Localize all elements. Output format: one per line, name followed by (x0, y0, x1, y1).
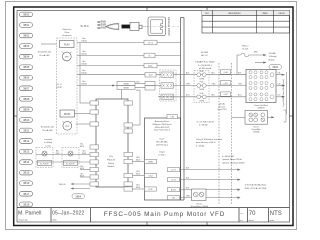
svg-text:3812: 3812 (23, 139, 30, 143)
module output arrows (72, 184, 90, 189)
svg-text:T4VFB: T4VFB (199, 89, 204, 91)
dimension bracket right (284, 110, 287, 122)
E-STOP station at x=36 (36, 148, 53, 168)
svg-text:3/4042: 3/4042 (81, 40, 87, 42)
safety module left terminals (90, 101, 99, 186)
svg-text:in Galley: in Galley (44, 142, 53, 144)
svg-text:FFSC–005 Main Pump Motor VFD: FFSC–005 Main Pump Motor VFD (104, 211, 225, 218)
svg-text:3/4C4: 3/4C4 (80, 176, 85, 178)
wire BLK/BLU pair (135, 84, 145, 88)
svg-text:3811: 3811 (23, 128, 29, 132)
label bus row power1 (81, 70, 87, 74)
svg-text:φ8 LAu: φ8 LAu (219, 103, 225, 106)
note FLA calc 2 (196, 138, 222, 147)
terminal pair 3800A/3800B (117, 82, 135, 90)
fuse FU2 (197, 84, 206, 88)
node 3816 (20, 181, 33, 186)
svg-text:E–STOP: E–STOP (40, 163, 49, 165)
svg-text:BYP: BYP (65, 126, 70, 128)
svg-text:3/4042: 3/4042 (81, 53, 87, 55)
E-STOP station at x=62 (62, 148, 79, 168)
svg-text:4 x 38 kW 440: 4 x 38 kW 440 (222, 156, 234, 158)
fuse holder label (195, 61, 215, 70)
wire to ground bus GB2 (232, 116, 246, 118)
svg-text:NTS: NTS (270, 211, 282, 217)
label bus 3203 (82, 151, 86, 155)
motor note (245, 184, 267, 190)
wire number box power 3 (221, 92, 231, 96)
wire motor BLK 168.1 (180, 169, 241, 171)
operator enclosure dashed (57, 38, 78, 134)
pilot light PL2 spec (41, 127, 55, 132)
node 3818 (20, 202, 33, 207)
svg-text:3/4042: 3/4042 (81, 83, 87, 85)
svg-text:3815: 3815 (23, 171, 30, 175)
wire module row 124 (76, 123, 91, 125)
svg-text:O,L,O: O,L,O (56, 84, 62, 86)
svg-text:3/4C4: 3/4C4 (80, 146, 85, 148)
svg-text:φ8 380 distrib: φ8 380 distrib (199, 67, 212, 70)
svg-text:05–Jan–2022: 05–Jan–2022 (52, 210, 85, 216)
plug body (130, 22, 142, 30)
safety module U2 (96, 99, 128, 187)
svg-text:45 C0: 45 C0 (148, 43, 153, 45)
svg-text:STOP: STOP (56, 87, 62, 89)
wire drop to safety module (121, 90, 123, 100)
label wire number (80, 173, 85, 177)
disconnect bracket (282, 72, 287, 114)
svg-text:+0/41: +0/41 (223, 83, 227, 85)
svg-text:3864: 3864 (75, 194, 81, 198)
svg-text:L1/T1: L1/T1 (171, 170, 176, 172)
drive right terminals (168, 168, 180, 200)
node 3604 oval (269, 65, 282, 70)
svg-text:Input:: Input: (160, 138, 165, 141)
label 45-403 (201, 52, 209, 57)
svg-text:Module: Module (269, 59, 275, 61)
label bus 3202 (56, 151, 60, 155)
label bus number (81, 38, 87, 42)
wire module rows lower (80, 170, 90, 178)
PDB label (254, 104, 268, 110)
motor arrow heads (237, 169, 240, 199)
svg-text:3/4C4: 3/4C4 (136, 174, 141, 176)
terminal strip TB1 (161, 72, 174, 77)
cable boot (106, 24, 119, 30)
svg-text:3801: 3801 (23, 23, 30, 27)
wire power row1 left (77, 74, 161, 76)
svg-text:Using 37 FLA and an assumed: Using 37 FLA and an assumed (196, 138, 222, 141)
svg-text:3–po 50 A (Fused Disconnect): 3–po 50 A (Fused Disconnect) (282, 79, 285, 107)
svg-text:3800: 3800 (23, 12, 30, 16)
svg-text:3802: 3802 (23, 34, 30, 38)
svg-text:+0/42: +0/42 (223, 94, 227, 96)
wire PLC comm arrows (98, 22, 106, 28)
svg-text:AUTO: AUTO (171, 189, 177, 192)
label wire number (80, 166, 85, 170)
wire control row 2 (77, 55, 181, 57)
node 3804 (20, 54, 33, 59)
svg-text:Optional: Belper 2350H: Optional: Belper 2350H (222, 158, 242, 161)
svg-text:date: date (262, 11, 268, 15)
svg-text:A04C: A04C (148, 65, 153, 68)
wire module to drive 2 (133, 175, 145, 177)
terminal label box row 3 (144, 63, 157, 68)
svg-text:3807: 3807 (23, 86, 30, 90)
svg-text:45 CM–: 45 CM– (101, 23, 107, 25)
wire power BLK (174, 74, 247, 76)
note FLA calc 1 (196, 121, 214, 127)
svg-text:name: name (278, 12, 285, 15)
svg-text:3810: 3810 (23, 118, 30, 122)
label bus junction (81, 81, 87, 85)
RJ45 jack J1 (148, 17, 166, 36)
svg-text:3203: 3203 (82, 153, 86, 155)
node 3802 (20, 33, 33, 38)
svg-text:Module: Module (108, 166, 116, 168)
svg-text:Level: Level (46, 145, 52, 147)
svg-text:3809: 3809 (23, 107, 30, 111)
svg-text:45 Λ403: 45 Λ403 (201, 52, 209, 54)
fuse FU34 (237, 53, 265, 75)
svg-text:Reserve: Reserve (219, 106, 226, 108)
wire module to drive 1 (133, 161, 145, 163)
wire duct (181, 18, 185, 201)
node 3806 (20, 75, 33, 80)
title block (17, 208, 290, 222)
svg-text:To Safety: To Safety (269, 55, 277, 58)
svg-text:SCX2200–24L: SCX2200–24L (38, 52, 52, 54)
pilot light PL2 (62, 121, 72, 130)
svg-text:380–480 VAC: 380–480 VAC (156, 141, 168, 144)
svg-text:3817: 3817 (23, 192, 30, 196)
svg-text:3202: 3202 (56, 153, 60, 155)
terminal label box power1 (145, 72, 156, 77)
svg-text:ORG: ORG (212, 83, 217, 85)
ground bus GB2 arrow (268, 116, 275, 118)
ground bus label (190, 202, 208, 208)
svg-text:VFD: VFD (65, 57, 70, 59)
node 3810 (20, 118, 33, 123)
wire module to drive 3 (133, 188, 145, 190)
drive spec text (152, 120, 172, 156)
svg-text:3800B: 3800B (123, 88, 129, 90)
terminal label box row 2 (144, 53, 155, 58)
pilot light PL1 (62, 52, 72, 61)
wire control row 3 (77, 65, 181, 67)
drive left terminals (145, 159, 157, 191)
svg-text:3813: 3813 (23, 150, 30, 154)
wire estop top (36, 154, 90, 156)
fuse FU34 label (242, 46, 249, 51)
svg-text:3808: 3808 (23, 97, 30, 101)
revision table (202, 11, 290, 34)
svg-text:To PLC: To PLC (80, 24, 89, 28)
svg-text:• 4 x 37 FLA ? 325 W: • 4 x 37 FLA ? 325 W (196, 121, 214, 124)
wire number box power 2 (221, 81, 231, 85)
ground bus GB1 (192, 189, 207, 201)
label 120VAC (269, 52, 277, 61)
wire motor GRN 196.1 (180, 197, 241, 199)
wire estop bottom (36, 161, 90, 163)
svg-text:3604: 3604 (272, 65, 278, 69)
node 3814 (20, 160, 33, 165)
svg-text:AutomationDirect: AutomationDirect (155, 120, 170, 123)
reserve note (217, 103, 227, 112)
svg-text:4 x 38 Aψ: 4 x 38 Aψ (196, 144, 205, 147)
svg-text:M. Parnell: M. Parnell (18, 210, 41, 216)
svg-text:3814: 3814 (23, 160, 30, 164)
svg-text:ORG: ORG (238, 83, 243, 85)
svg-text:50/56 Hz 3φ 4: 50/56 Hz 3φ 4 (156, 145, 168, 147)
wire motor BLK 188.1 (180, 189, 241, 191)
svg-text:To 37 FLA 230 VAC Motor: To 37 FLA 230 VAC Motor (245, 184, 267, 187)
terminal strip TB2 (161, 83, 174, 88)
ground bus block GB2 (245, 111, 268, 125)
note optional (222, 156, 245, 164)
svg-text:3803: 3803 (23, 44, 30, 48)
wire module row 103 (80, 102, 90, 104)
fuse FU3 (197, 95, 206, 99)
terminal label box row 1 (144, 40, 157, 45)
node 3805 (20, 65, 33, 70)
wire number box power 1 (221, 70, 231, 74)
svg-text:SCX2200–24L: SCX2200–24L (41, 127, 55, 129)
power distribution block PDB (246, 70, 276, 103)
node 3812 (20, 139, 33, 144)
wire control row 1 (77, 42, 181, 44)
node 3817 (20, 191, 33, 196)
svg-text:4 x 38 ΩA: 4 x 38 ΩA (199, 124, 208, 127)
svg-text:3804: 3804 (23, 55, 30, 59)
svg-text:L7/3L: L7/3L (148, 189, 153, 191)
svg-text:Safety: Safety (108, 162, 115, 165)
node 3811 (20, 128, 33, 133)
svg-text:3/4C4: 3/4C4 (136, 187, 141, 189)
node 3801 (20, 23, 33, 28)
wire module row 112 (75, 113, 91, 115)
svg-text:3816: 3816 (23, 181, 30, 185)
svg-text:70: 70 (249, 211, 256, 217)
svg-text:Power Dist Block: Power Dist Block (254, 104, 268, 107)
svg-text:AO–4C: AO–4C (201, 54, 208, 57)
svg-text:26 mA LED: 26 mA LED (42, 129, 53, 132)
wire drop right 3800B (133, 90, 141, 125)
terminal boxes pair right (145, 81, 155, 90)
drawing frame (14, 7, 293, 226)
svg-text:Mount on: Mount on (63, 28, 73, 31)
svg-text:L2/T2: L2/T2 (171, 180, 176, 182)
svg-text:Ground Buss #G500A: Ground Buss #G500A (190, 205, 208, 208)
svg-text:rev: rev (240, 220, 243, 222)
svg-text:GS03–4R5 f5 HP: GS03–4R5 f5 HP (155, 127, 170, 129)
svg-text:Enclosure: Enclosure (62, 34, 72, 37)
safety module label (107, 156, 116, 168)
svg-text:Ethernet 10/100: Ethernet 10/100 (167, 17, 171, 36)
drive top terminal (167, 115, 178, 119)
note located in galley (44, 138, 53, 147)
cable connector (black) (122, 25, 131, 29)
svg-text:drawn by: drawn by (19, 219, 29, 222)
svg-text:E–STOP: E–STOP (66, 163, 75, 165)
node 3813 (20, 149, 33, 154)
svg-text:GS4(polar 5R03 Series: GS4(polar 5R03 Series (152, 123, 172, 126)
svg-text:3/4042: 3/4042 (81, 73, 87, 75)
svg-text:350R x 37 FLA = 44.23 A): 350R x 37 FLA = 44.23 A) (245, 187, 267, 190)
svg-text:3/4C4: 3/4C4 (80, 168, 85, 170)
node 3815 (20, 170, 33, 175)
wire power ORG (174, 85, 247, 87)
selector STOP note (56, 84, 62, 89)
ground bus GB2 label (251, 126, 260, 134)
svg-text:L3C2: L3C2 (148, 176, 152, 178)
svg-text:T303A38 Fuse Holder: T303A38 Fuse Holder (195, 61, 215, 64)
svg-text:MC31: MC31 (64, 113, 71, 116)
fuse dashed box (194, 70, 209, 103)
svg-text:3/4C4: 3/4C4 (136, 160, 141, 162)
node 3808 (20, 97, 33, 102)
svg-text:+0/40: +0/40 (223, 72, 227, 74)
svg-text:16/88/78: 16/88/78 (258, 108, 265, 110)
svg-text:RUN: RUN (64, 44, 70, 47)
wire motor BLK 178.1 (180, 179, 241, 181)
svg-text:FU34+0: FU34+0 (242, 46, 248, 48)
pilot light mount note (62, 28, 72, 37)
pushbutton PB1 RUN (60, 41, 75, 48)
zone tick marks (14, 7, 293, 226)
node 3800 (20, 12, 33, 17)
svg-text:120 VAC: 120 VAC (269, 52, 277, 55)
svg-text:drive Frame Size 0: drive Frame Size 0 (154, 129, 170, 132)
safety module right terminals (124, 101, 133, 191)
svg-text:45 C0+: 45 C0+ (101, 20, 107, 22)
svg-text:L2B: L2B (278, 83, 281, 85)
node To-PLC label (80, 24, 89, 28)
svg-text:3806: 3806 (23, 76, 30, 80)
svg-text:#G500A: #G500A (253, 131, 260, 134)
terminal strip dashed box (160, 70, 177, 101)
svg-text:T4VFB: T4VFB (199, 78, 204, 80)
fuse FU1 (197, 73, 206, 77)
svg-text:5K mA: 5K mA (242, 47, 248, 50)
svg-text:0–?(V) 2: 0–?(V) 2 (158, 155, 165, 157)
pushbutton PB2 MC31 (60, 110, 75, 117)
pilot light PL1 spec (38, 52, 52, 57)
svg-text:sheet: sheet (249, 219, 254, 222)
wire junction row (77, 85, 117, 87)
svg-text:WE 140: WE 140 (59, 184, 65, 186)
enclosure dashed walls (219, 63, 232, 205)
VFD drive U1 (145, 118, 181, 200)
terminal strip TB3 (161, 94, 174, 99)
svg-text:Optional: Dysdrake 84343l: Optional: Dysdrake 84343l (222, 161, 245, 164)
svg-text:3818: 3818 (23, 202, 30, 206)
wire power BLU (158, 96, 246, 98)
node 3809 (20, 107, 33, 112)
label wire number (80, 144, 85, 148)
svg-text:26 mA LED: 26 mA LED (39, 54, 50, 57)
wire stub to RUN (41, 43, 57, 45)
wire to strip row2 (155, 85, 161, 87)
svg-text:3 x 250 A 600 V: 3 x 250 A 600 V (198, 64, 213, 67)
svg-text:T4VFB: T4VFB (199, 100, 204, 102)
svg-text:4/4W2: 4/4W2 (148, 162, 153, 164)
node 3864 oval (72, 194, 85, 199)
wire riser (79, 43, 81, 104)
node 3803 (20, 44, 33, 49)
svg-text:description: description (228, 11, 241, 15)
wire centerline (142, 25, 148, 27)
svg-text:Located: Located (44, 138, 52, 141)
svg-text:Drive: Drive (65, 31, 71, 34)
svg-text:3805: 3805 (23, 65, 30, 69)
svg-text:3800A: 3800A (123, 83, 129, 86)
svg-text:FS02 X3: FS02 X3 (107, 159, 116, 161)
svg-text:3/4042: 3/4042 (81, 63, 87, 65)
svg-text:ORG: ORG (186, 83, 191, 85)
label bus number (81, 61, 87, 65)
svg-text:drive efficiency of 98 %:: drive efficiency of 98 %: (196, 141, 216, 144)
svg-text:Output:: Output: (159, 151, 166, 154)
label bus number (81, 51, 87, 55)
PDB output arrows (276, 75, 285, 97)
node 3807 (20, 86, 33, 91)
